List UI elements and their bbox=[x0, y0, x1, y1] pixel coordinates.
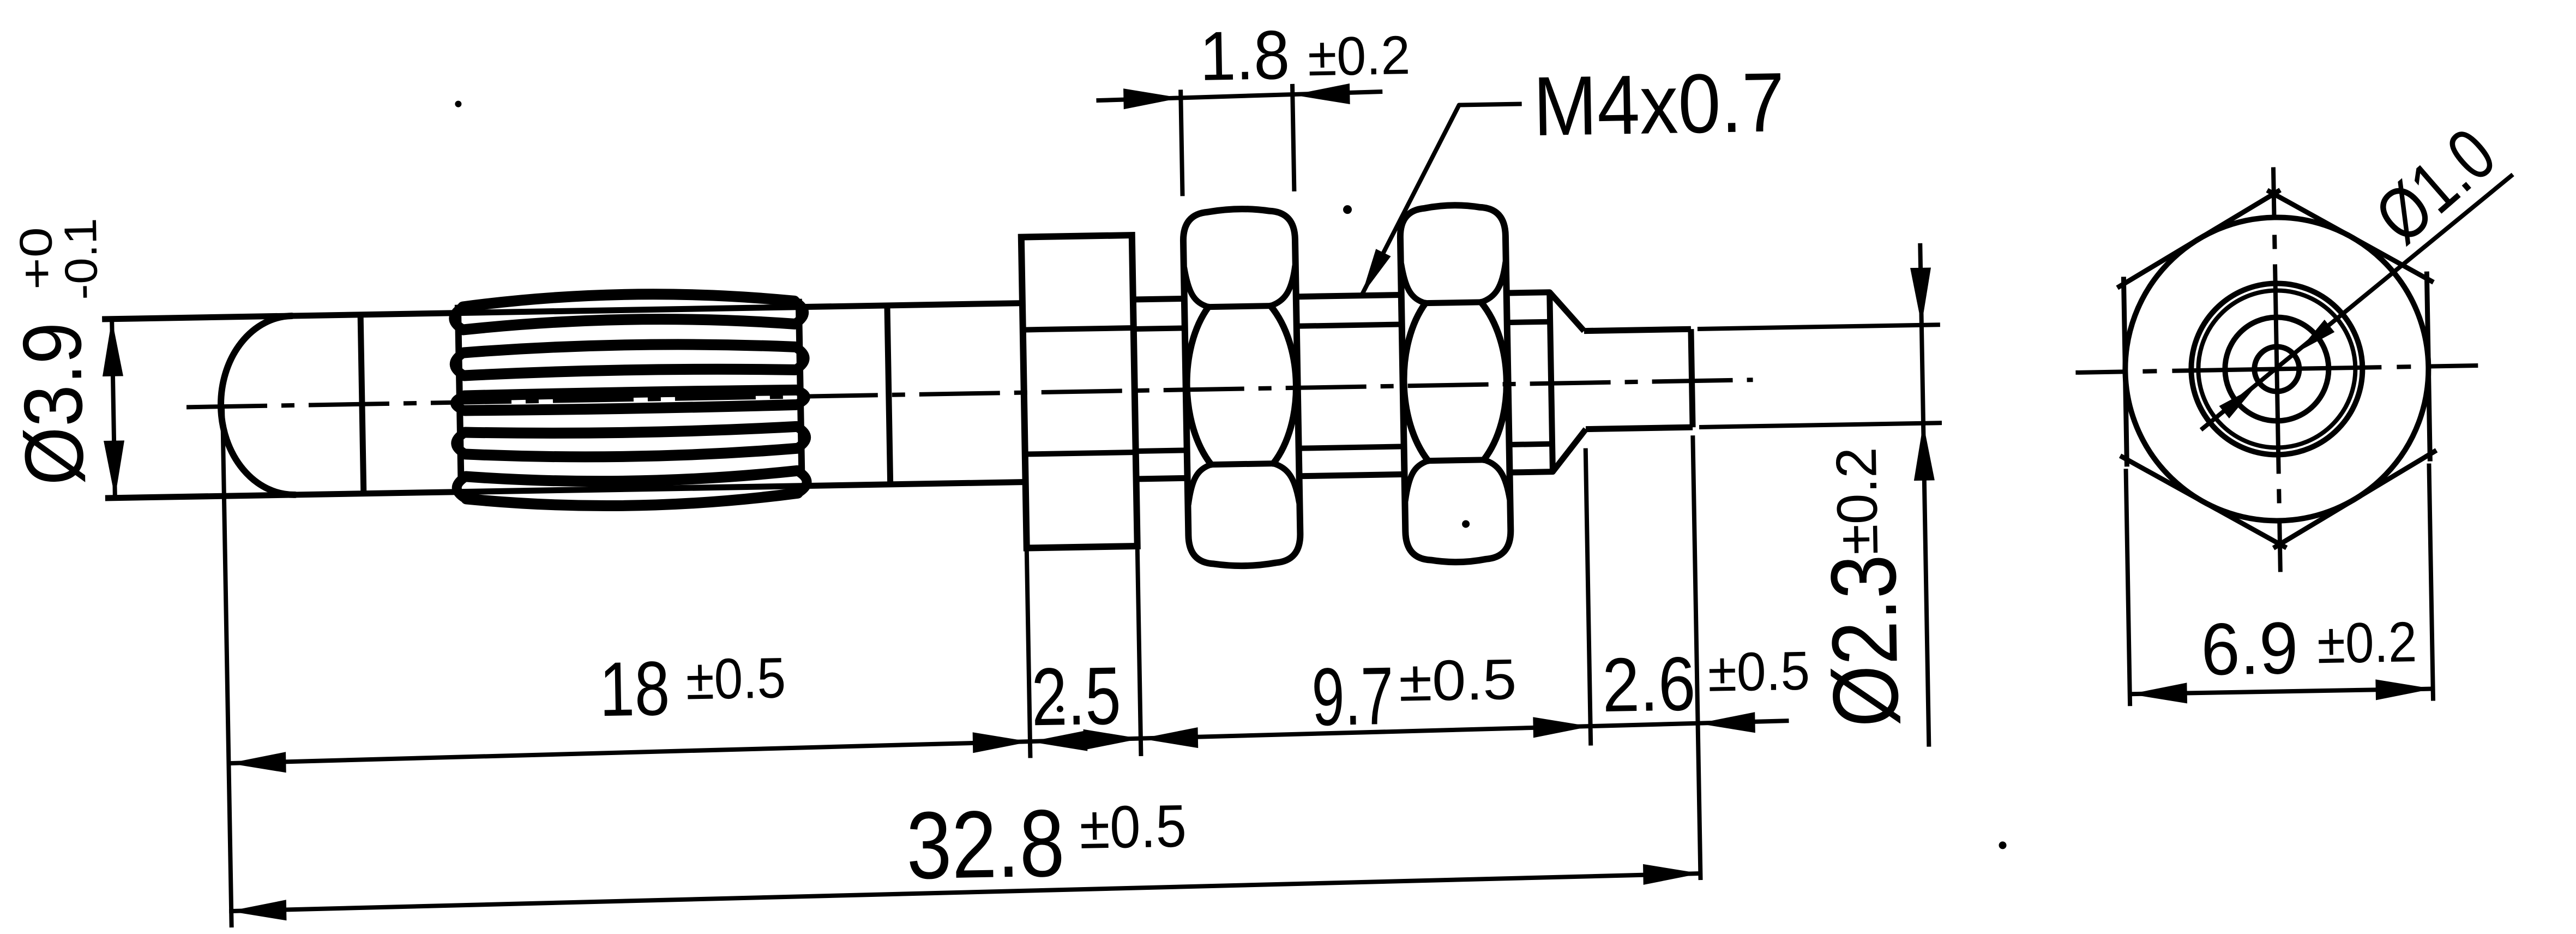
flange inner top line bbox=[1023, 328, 1134, 330]
svg-text:±0.5: ±0.5 bbox=[1079, 792, 1187, 861]
ring outer circle bbox=[2190, 282, 2364, 456]
1.8 arrow right bbox=[1292, 83, 1350, 105]
M4x0.7 leader bbox=[1358, 104, 1525, 296]
svg-text:18: 18 bbox=[599, 645, 671, 732]
dia1.0 arrow lower bbox=[2219, 386, 2256, 418]
dia3.9 arrow up bbox=[101, 319, 123, 376]
pin end ext line bbox=[1693, 435, 1700, 880]
plug centerline bbox=[186, 380, 1753, 407]
1.8 tol text bbox=[1307, 25, 1411, 87]
2.5 arrow right bbox=[1084, 728, 1141, 750]
svg-text:-0.1: -0.1 bbox=[55, 218, 107, 301]
dia1.0 text bbox=[2358, 111, 2512, 260]
18 tol text bbox=[685, 646, 786, 711]
svg-text:±0.2: ±0.2 bbox=[1825, 447, 1890, 555]
thread root bottom bbox=[1136, 444, 1552, 451]
thread outer bottom bbox=[1136, 472, 1553, 479]
dia3.9 tol -0.1 bbox=[55, 218, 107, 301]
dia1.0 arrow upper bbox=[2297, 320, 2335, 352]
ring inner circle bbox=[2197, 289, 2357, 449]
flange rectangle bbox=[1021, 235, 1137, 548]
dia2.3 ext bottom bbox=[1699, 423, 1942, 427]
dia2.3 arrow down bbox=[1910, 267, 1932, 325]
9.7 arrow left bbox=[1141, 727, 1199, 749]
middle circle bbox=[2224, 316, 2330, 422]
small circle dia1.0 bbox=[2254, 346, 2300, 392]
pin top line bbox=[1584, 329, 1691, 331]
18 arrow right bbox=[973, 731, 1031, 753]
flange right ext line bbox=[1137, 549, 1141, 756]
dia2.3 arrow up bbox=[1913, 423, 1935, 481]
9.7 tol text bbox=[1398, 648, 1517, 714]
hexagon bbox=[2116, 187, 2438, 550]
1.8 ext line right bbox=[1292, 84, 1294, 191]
dia3.9 text bbox=[5, 321, 101, 486]
tip divider line bbox=[360, 315, 364, 494]
dia3.9 dim line bbox=[112, 319, 115, 498]
svg-text:2.5: 2.5 bbox=[1031, 650, 1122, 743]
2.5 arrow left bbox=[1030, 731, 1088, 752]
2.6 arrow right bbox=[1698, 712, 1755, 734]
2.6 tol text bbox=[1707, 640, 1810, 703]
svg-text:±0.5: ±0.5 bbox=[1398, 648, 1517, 714]
inscribed circle bbox=[2123, 215, 2431, 524]
cone top edge bbox=[1550, 292, 1584, 332]
speck 5 bbox=[1999, 841, 2006, 849]
9.7 text bbox=[1311, 650, 1394, 743]
pin start ext line bbox=[1586, 448, 1591, 746]
1.8 arrow left bbox=[1123, 87, 1181, 109]
svg-text:32.8: 32.8 bbox=[906, 790, 1066, 899]
dia2.3 ext top bbox=[1698, 325, 1940, 329]
6.9 ext left bbox=[2126, 469, 2130, 706]
pin end line bbox=[1691, 329, 1693, 427]
hex nut 1 bbox=[1183, 208, 1301, 566]
svg-text:6.9: 6.9 bbox=[2200, 607, 2299, 691]
speck 4 bbox=[1057, 705, 1063, 712]
dim chain line bbox=[228, 721, 1789, 763]
2.5 text bbox=[1031, 650, 1122, 743]
knurl ribs bbox=[463, 291, 798, 508]
body top line (also ext line for dia 3.9) bbox=[102, 303, 1022, 319]
M4x0.7 text bbox=[1532, 55, 1785, 153]
dia1.0 leader bbox=[2196, 175, 2517, 430]
32.8 text bbox=[906, 790, 1066, 899]
svg-text:±0.2: ±0.2 bbox=[1307, 25, 1411, 87]
svg-text:M4x0.7: M4x0.7 bbox=[1532, 55, 1785, 153]
pin bottom line bbox=[1586, 427, 1693, 429]
hex nut 2 bbox=[1400, 205, 1511, 563]
dia3.9 tol +0 bbox=[10, 226, 62, 290]
dia2.3 text bbox=[1811, 554, 1918, 728]
svg-text:1.8: 1.8 bbox=[1199, 16, 1290, 95]
thread end line bbox=[1550, 292, 1553, 472]
thread outer top bbox=[1133, 292, 1550, 300]
right view horizontal centerline bbox=[2075, 366, 2478, 373]
dia2.3 dim line bbox=[1920, 243, 1929, 747]
knurl right edge bbox=[799, 299, 802, 474]
svg-text:±0.5: ±0.5 bbox=[1707, 640, 1810, 703]
right view vertical centerline bbox=[2273, 167, 2280, 572]
svg-text:±0.2: ±0.2 bbox=[2316, 610, 2417, 675]
svg-text:9.7: 9.7 bbox=[1311, 650, 1394, 743]
6.9 arrow left bbox=[2129, 682, 2187, 704]
knurl end hooks bbox=[454, 301, 807, 499]
1.8 text bbox=[1199, 16, 1290, 95]
speck 1 bbox=[455, 100, 461, 107]
dia3.9 arrow down bbox=[104, 440, 125, 498]
cone bottom edge bbox=[1552, 429, 1586, 472]
32.8 tol text bbox=[1079, 792, 1187, 861]
svg-text:2.6: 2.6 bbox=[1602, 640, 1696, 728]
dia2.3 tol text bbox=[1825, 447, 1890, 555]
svg-text:±0.5: ±0.5 bbox=[685, 646, 786, 711]
6.9 tol text bbox=[2316, 610, 2417, 675]
1.8 dim line bbox=[1096, 92, 1382, 100]
1.8 ext line left bbox=[1181, 89, 1182, 196]
6.9 arrow right bbox=[2375, 679, 2433, 701]
body bottom line (also ext line for dia 3.9) bbox=[105, 482, 1026, 498]
svg-text:Ø3.9: Ø3.9 bbox=[5, 321, 101, 486]
speck 3 bbox=[1462, 520, 1470, 528]
flange inner bottom line bbox=[1025, 452, 1136, 454]
speck 2 bbox=[1343, 205, 1352, 214]
9.7 arrow right bbox=[1533, 716, 1591, 738]
6.9 dim line bbox=[2130, 689, 2433, 694]
2.6 text bbox=[1602, 640, 1696, 728]
18 arrow left bbox=[228, 752, 286, 774]
32.8 arrow right bbox=[1643, 863, 1701, 885]
tip arc bbox=[219, 316, 295, 496]
32.8 arrow left bbox=[229, 900, 287, 921]
18 text bbox=[599, 645, 671, 732]
flange left ext line bbox=[1027, 551, 1031, 758]
knurl left edge bbox=[458, 305, 461, 480]
M4x0.7 arrow bbox=[1361, 249, 1391, 296]
sleeve divider line bbox=[887, 306, 890, 484]
thread root top bbox=[1134, 322, 1550, 329]
svg-text:Ø2.3: Ø2.3 bbox=[1811, 554, 1918, 728]
6.9 ext right bbox=[2429, 464, 2433, 701]
32.8 dim line bbox=[229, 873, 1701, 911]
6.9 text bbox=[2200, 607, 2299, 691]
left ext line bbox=[222, 408, 232, 927]
